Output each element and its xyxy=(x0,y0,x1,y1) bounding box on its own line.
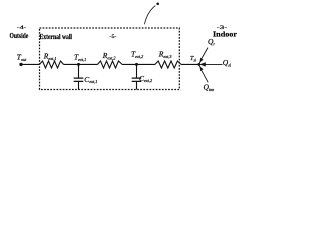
capacitor Cext1 stem xyxy=(78,64,80,78)
wire between Rext2 and node Text2 xyxy=(122,63,155,65)
resistor Rext1 xyxy=(40,61,64,68)
svg-text:-5-: -5- xyxy=(110,35,117,40)
capacitor Cext1 bottom stub xyxy=(78,81,80,89)
wire left lead from Tout node xyxy=(21,63,40,65)
arrow line Qsi xyxy=(199,63,223,65)
terminal dot Tout xyxy=(19,63,22,66)
arrowhead Qinn xyxy=(199,66,203,71)
arrowhead Qr xyxy=(199,58,203,63)
capacitor Cext2 bottom stub xyxy=(136,81,138,89)
capacitor Cext1 plates xyxy=(74,78,84,81)
node Text1 xyxy=(77,63,80,66)
capacitor Cext2 plates xyxy=(132,78,142,81)
arrowhead Qsi xyxy=(200,62,206,66)
solar squiggle line xyxy=(144,6,155,25)
resistor Rext2 xyxy=(98,61,123,68)
resistor Rext3 xyxy=(155,61,181,68)
svg-text:Outside: Outside xyxy=(10,32,29,40)
node Text2 xyxy=(135,63,138,66)
svg-text:Indoor: Indoor xyxy=(213,30,238,38)
capacitor Cext2 stem xyxy=(136,64,138,78)
dashed boundary box External wall xyxy=(40,28,180,90)
arrow line Qinn xyxy=(199,65,208,83)
wire Rext3 to node Tsi xyxy=(181,63,199,65)
solar squiggle dot xyxy=(156,3,159,6)
svg-text:-4-: -4- xyxy=(17,26,27,31)
arrow line Qr xyxy=(199,48,208,64)
wire between Rext1 and node Text1 xyxy=(64,63,98,65)
svg-text:External wall: External wall xyxy=(40,33,73,41)
node Tsi xyxy=(197,63,200,66)
